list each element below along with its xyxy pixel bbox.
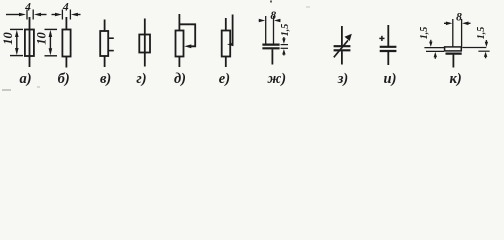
dimension 8 right arrow (capacitor k) bbox=[462, 22, 470, 26]
resistor body R v (tapped) bbox=[100, 31, 108, 56]
scan speck mid left bbox=[37, 86, 40, 88]
wire top lead e bbox=[225, 18, 227, 31]
dimension 1,5 extension bars (capacitor zh) bbox=[281, 45, 288, 49]
resistor body R e bbox=[222, 31, 231, 57]
resistor body R d bbox=[176, 31, 184, 57]
wiper wire e bbox=[231, 15, 234, 45]
svg-text:д): д) bbox=[174, 71, 186, 87]
capacitor plate bottom z bbox=[334, 49, 351, 51]
dimension 8 extension lines (capacitor k) bbox=[453, 19, 462, 47]
dimension 4 left arrow (resistor a) bbox=[6, 13, 26, 17]
resistor body R a bbox=[25, 30, 34, 57]
svg-text:10: 10 bbox=[1, 32, 15, 45]
wire bottom lead b bbox=[65, 57, 67, 68]
dimension 4 extension lines (resistor b) bbox=[62, 10, 70, 20]
svg-text:1,5: 1,5 bbox=[476, 27, 487, 40]
wire top lead i bbox=[387, 25, 389, 46]
svg-text:г): г) bbox=[136, 71, 146, 87]
dimension 10 arrow shaft (resistor b) bbox=[49, 30, 53, 56]
dimension 8 left arrow (capacitor k) bbox=[444, 22, 452, 26]
wire bottom lead v bbox=[104, 56, 106, 67]
dimension 1,5 right arrows (capacitor k) bbox=[484, 40, 488, 58]
dimension 4 right arrow (resistor b) bbox=[71, 13, 81, 17]
wire bottom lead zh bbox=[271, 49, 273, 64]
rheostat loop wire d bbox=[179, 24, 195, 46]
tap 1 resistor v bbox=[108, 37, 114, 39]
dimension 1,5 left arrows (capacitor k) bbox=[429, 40, 437, 59]
dimension 4 left arrow (resistor b) bbox=[52, 13, 63, 17]
svg-text:е): е) bbox=[219, 71, 230, 87]
svg-text:к): к) bbox=[450, 71, 462, 87]
svg-text:1,5: 1,5 bbox=[280, 24, 291, 37]
resistor body R g bbox=[139, 35, 150, 53]
svg-text:б): б) bbox=[58, 71, 70, 87]
svg-text:и): и) bbox=[384, 71, 397, 87]
scan speck top area bbox=[306, 6, 310, 8]
capacitor plate bottom i bbox=[380, 50, 397, 52]
wire bottom lead i bbox=[387, 52, 389, 65]
wiper arrow d bbox=[184, 44, 191, 48]
wire top lead z bbox=[341, 26, 343, 46]
capacitor plate top zh bbox=[262, 43, 279, 45]
scan speck bottom left bbox=[2, 89, 11, 91]
capacitor plate rectangle k bbox=[445, 47, 462, 51]
svg-text:ж): ж) bbox=[267, 71, 286, 87]
svg-text:а): а) bbox=[20, 71, 32, 87]
wire bottom lead d bbox=[178, 57, 180, 68]
tap 2 resistor v bbox=[108, 50, 114, 52]
polarity plus sign i bbox=[379, 36, 384, 41]
dimension 8 right arrow (capacitor zh) bbox=[274, 19, 280, 23]
wire bottom lead k bbox=[452, 55, 454, 68]
wire top lead d bbox=[178, 14, 180, 31]
wire top lead b bbox=[65, 17, 67, 30]
dimension 4 extension lines (resistor a) bbox=[27, 10, 33, 20]
svg-text:в): в) bbox=[100, 71, 111, 87]
svg-text:10: 10 bbox=[35, 32, 49, 45]
wire top lead v bbox=[104, 20, 106, 32]
capacitor plate top z bbox=[334, 45, 351, 47]
wire bottom lead e bbox=[225, 57, 227, 68]
wire bottom lead z bbox=[341, 51, 343, 64]
dimension 1,5 right extension bars (capacitor k) bbox=[462, 48, 489, 52]
variability arrow z bbox=[334, 34, 352, 58]
wire lead through resistor a bbox=[29, 17, 31, 67]
dimension 8 left arrow (capacitor zh) bbox=[259, 19, 265, 23]
resistor body R b bbox=[62, 30, 70, 57]
capacitor plate top i bbox=[380, 46, 397, 48]
svg-text:з): з) bbox=[337, 71, 349, 87]
dimension 10 arrow shaft (resistor a) bbox=[15, 30, 19, 55]
capacitor plate bottom k bbox=[446, 52, 462, 54]
dimension 8 extension lines (capacitor zh) bbox=[266, 16, 274, 44]
dimension 4 right arrow (resistor a) bbox=[34, 13, 47, 17]
svg-text:1,5: 1,5 bbox=[419, 27, 430, 40]
dimension 10 extension bars (resistor a) bbox=[10, 29, 23, 55]
wire lead through resistor g bbox=[144, 19, 146, 67]
dimension 1,5 left extension bars (capacitor k) bbox=[424, 48, 444, 52]
dimension 10 extension bars (resistor b) bbox=[45, 29, 58, 55]
wiper arrow e bbox=[227, 43, 233, 47]
ink speck above zh bbox=[270, 1, 272, 3]
capacitor plate bottom zh bbox=[262, 47, 279, 49]
dimension 1,5 arrows (capacitor zh) bbox=[282, 37, 285, 56]
